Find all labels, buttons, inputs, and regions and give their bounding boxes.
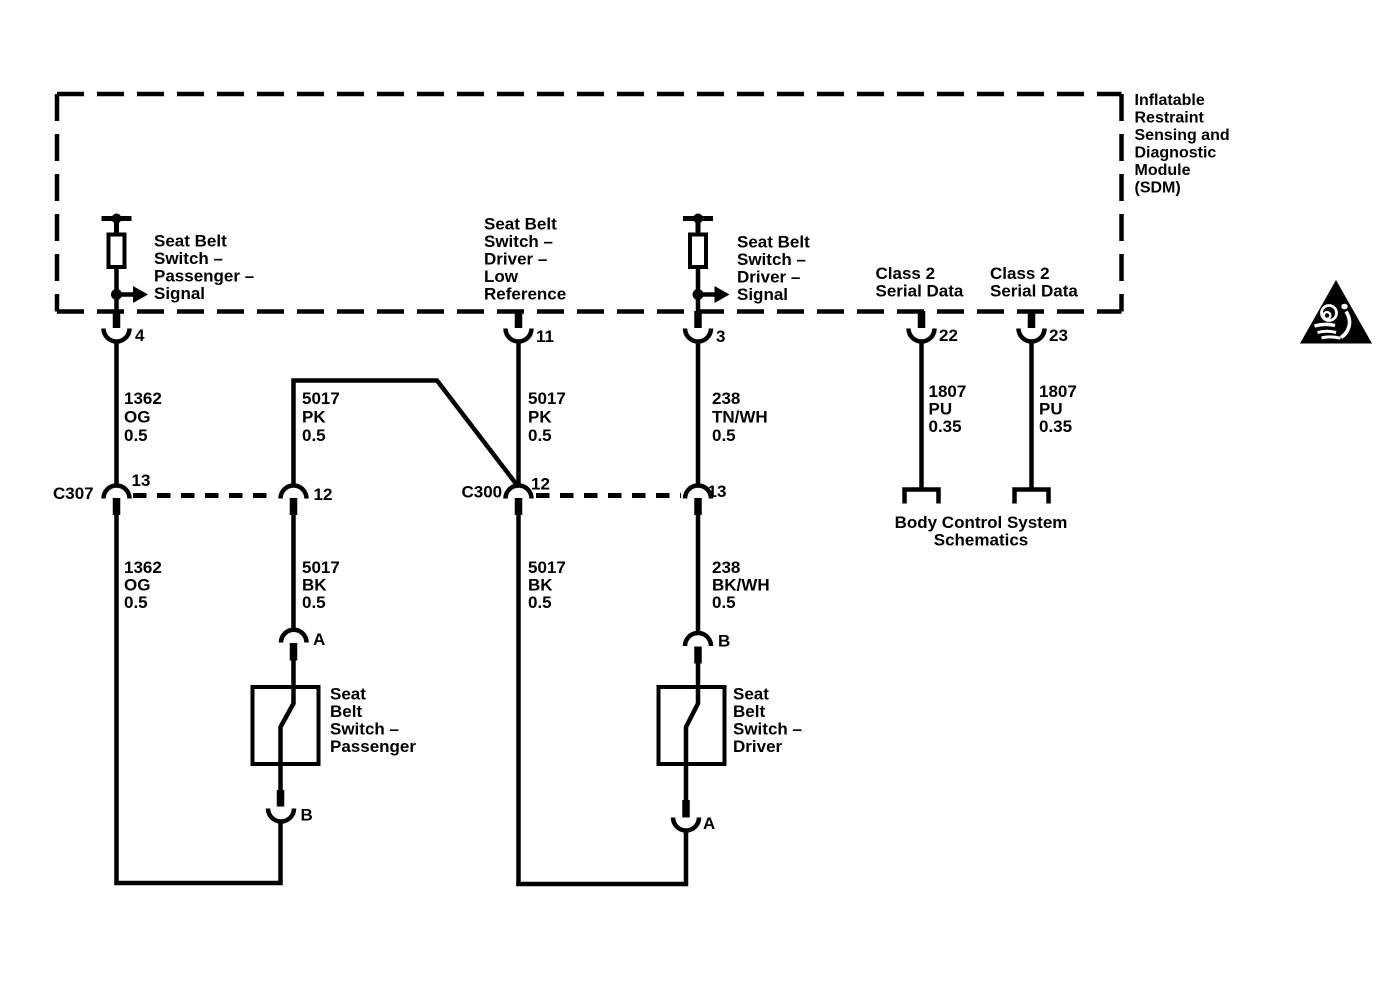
label: wire 238 BK/WH 0.5 — [712, 558, 770, 612]
svg-text:Seat: Seat — [330, 685, 366, 704]
svg-text:Seat: Seat — [733, 685, 769, 704]
label: wire 1807 PU 0.35 (pin 23) — [1039, 382, 1077, 436]
svg-text:Switch –: Switch – — [733, 720, 802, 739]
svg-text:Restraint: Restraint — [1135, 109, 1205, 126]
svg-text:1807: 1807 — [929, 382, 967, 401]
svg-text:1362: 1362 — [124, 558, 162, 577]
svg-text:Switch –: Switch – — [737, 250, 806, 269]
svg-text:Belt: Belt — [330, 702, 362, 721]
svg-text:0.5: 0.5 — [528, 426, 552, 445]
svg-text:0.35: 0.35 — [929, 417, 962, 436]
dashed connector line C300 — [536, 493, 681, 498]
label: Body Control System Schematics — [895, 513, 1068, 550]
SDM module name label — [1135, 92, 1230, 197]
svg-text:22: 22 — [939, 326, 958, 345]
resistor (SDM internal, driver) — [690, 235, 706, 268]
wire: C300-13 down to terminal B, 238 BK/WH — [696, 515, 701, 634]
wire: SDM pin 22 class 2 serial data — [919, 340, 924, 489]
svg-text:PK: PK — [528, 408, 552, 427]
svg-text:B: B — [718, 632, 730, 651]
connector C300 terminal 12 — [506, 475, 550, 516]
svg-text:Reference: Reference — [484, 285, 566, 304]
SDM connector pin 4 — [104, 311, 146, 345]
svg-text:C300: C300 — [462, 483, 503, 502]
wire: terminal A into switch box — [291, 661, 296, 689]
SDM connector pin 11 — [506, 311, 554, 346]
connector terminal B, passenger switch — [268, 790, 313, 825]
seat belt switch passenger: box — [253, 687, 319, 764]
label: wire 1362 OG 0.5 (lower) — [124, 558, 162, 612]
svg-text:Signal: Signal — [737, 285, 788, 304]
resistor (SDM internal, passenger) — [109, 235, 125, 268]
connector terminal A, driver switch — [673, 800, 715, 833]
svg-text:Class 2: Class 2 — [990, 264, 1050, 283]
connector C307 terminal 13 — [104, 471, 151, 515]
svg-text:Passenger –: Passenger – — [154, 267, 254, 286]
wire: C307-12 down to terminal A, 5017 BK — [291, 515, 296, 631]
label: wire 1807 PU 0.35 (pin 22) — [929, 382, 967, 436]
wire: C307-13 down to bottom run, 1362 OG — [114, 515, 119, 883]
SDM internal pull-up and sense arrow, driver signal — [683, 214, 730, 312]
svg-text:OG: OG — [124, 576, 150, 595]
svg-text:3: 3 — [716, 327, 725, 346]
connector C307 terminal 12 — [281, 485, 333, 515]
svg-text:13: 13 — [132, 471, 151, 490]
SIR airbag caution triangle icon — [1300, 280, 1372, 344]
svg-text:PU: PU — [1039, 400, 1063, 419]
svg-text:12: 12 — [314, 485, 333, 504]
svg-text:0.5: 0.5 — [124, 426, 148, 445]
svg-text:Body Control System: Body Control System — [895, 513, 1068, 532]
svg-text:1807: 1807 — [1039, 382, 1077, 401]
SDM connector pin 23 — [1019, 311, 1068, 345]
svg-text:23: 23 — [1049, 326, 1068, 345]
svg-text:A: A — [703, 814, 715, 833]
wire: bottom run to driver switch A — [516, 830, 686, 884]
svg-text:11: 11 — [536, 327, 554, 346]
svg-text:13: 13 — [708, 482, 727, 501]
seat belt switch driver: blade — [686, 687, 698, 800]
svg-text:Switch –: Switch – — [154, 249, 223, 268]
svg-text:0.5: 0.5 — [302, 593, 326, 612]
svg-text:0.5: 0.5 — [302, 426, 326, 445]
label: Seat Belt Switch - Passenger - Signal — [154, 232, 254, 304]
svg-text:Inflatable: Inflatable — [1135, 92, 1205, 109]
svg-text:4: 4 — [135, 326, 145, 345]
svg-text:5017: 5017 — [302, 389, 340, 408]
wire: terminal B into switch box — [696, 664, 701, 689]
svg-text:0.35: 0.35 — [1039, 417, 1072, 436]
label: wire 5017 PK 0.5 (branch) — [302, 389, 340, 445]
svg-text:Switch –: Switch – — [484, 232, 553, 251]
label: Seat Belt Switch - Driver - Low Reference — [484, 215, 566, 304]
connector terminal A, passenger switch — [281, 630, 325, 661]
svg-text:Driver –: Driver – — [737, 268, 800, 287]
svg-text:0.5: 0.5 — [124, 593, 148, 612]
wire: SDM pin 4 to C307-13, circuit 1362 OG — [114, 340, 119, 487]
label: Seat Belt Switch - Passenger — [330, 685, 416, 757]
SDM internal pull-up and sense arrow, passenger signal — [102, 214, 149, 312]
svg-text:Sensing and: Sensing and — [1135, 127, 1230, 144]
svg-text:BK: BK — [302, 576, 327, 595]
wire: SDM pin 11 to C300-12, circuit 5017 PK — [516, 340, 521, 487]
label: Seat Belt Switch - Driver - Signal — [737, 233, 810, 305]
wire: SDM pin 23 class 2 serial data — [1029, 340, 1034, 489]
svg-text:Seat Belt: Seat Belt — [154, 232, 227, 251]
svg-text:(SDM): (SDM) — [1135, 179, 1181, 196]
svg-text:Seat Belt: Seat Belt — [484, 215, 557, 234]
wire: C300-12 down to bottom run, 5017 BK — [516, 515, 521, 884]
svg-text:1362: 1362 — [124, 389, 162, 408]
svg-text:Belt: Belt — [733, 702, 765, 721]
connector C300 terminal 13 — [685, 482, 726, 515]
svg-text:Schematics: Schematics — [934, 531, 1029, 550]
label: wire 5017 BK 0.5 (driver) — [528, 558, 566, 612]
wire: SDM pin 3 to C300-13, circuit 238 TN/WH — [696, 340, 701, 487]
off-page bracket, pin 23 wire — [1015, 490, 1049, 504]
svg-text:PU: PU — [929, 400, 953, 419]
svg-text:Serial Data: Serial Data — [876, 282, 964, 301]
off-page bracket, pin 22 wire — [905, 490, 939, 504]
svg-text:Module: Module — [1135, 162, 1191, 179]
svg-text:Passenger: Passenger — [330, 737, 416, 756]
svg-text:A: A — [313, 630, 325, 649]
connector terminal B, driver switch — [685, 632, 730, 664]
svg-text:OG: OG — [124, 408, 150, 427]
svg-text:Seat Belt: Seat Belt — [737, 233, 810, 252]
svg-text:B: B — [301, 806, 313, 825]
svg-text:Switch –: Switch – — [330, 720, 399, 739]
label: Seat Belt Switch - Driver — [733, 685, 802, 757]
label: wire 5017 PK 0.5 (pin 11) — [528, 389, 566, 445]
svg-text:TN/WH: TN/WH — [712, 408, 768, 427]
svg-text:Signal: Signal — [154, 284, 205, 303]
SDM module dashed boundary box — [57, 94, 1122, 312]
svg-text:BK/WH: BK/WH — [712, 576, 770, 595]
svg-text:BK: BK — [528, 576, 553, 595]
svg-text:C307: C307 — [53, 484, 94, 503]
svg-text:5017: 5017 — [528, 558, 566, 577]
dashed connector line C307 — [133, 493, 277, 498]
svg-text:5017: 5017 — [302, 558, 340, 577]
svg-text:12: 12 — [531, 475, 550, 494]
svg-text:0.5: 0.5 — [712, 426, 736, 445]
svg-text:Class 2: Class 2 — [876, 264, 936, 283]
label: wire 1362 OG 0.5 (upper) — [124, 389, 162, 445]
svg-text:Driver: Driver — [733, 737, 783, 756]
label: wire 5017 BK 0.5 (passenger) — [302, 558, 340, 612]
svg-text:Low: Low — [484, 267, 519, 286]
label: Class 2 Serial Data (pin 22) — [876, 264, 964, 301]
svg-text:Driver –: Driver – — [484, 250, 547, 269]
wire: bottom run to passenger switch B — [114, 821, 280, 883]
SDM connector pin 3 — [685, 311, 725, 346]
wire: C307-12 up, across and diagonal down to C300-12 splice — [294, 381, 519, 488]
svg-text:Diagnostic: Diagnostic — [1135, 144, 1217, 161]
label: wire 238 TN/WH 0.5 — [712, 389, 768, 445]
svg-text:PK: PK — [302, 408, 326, 427]
label: Class 2 Serial Data (pin 23) — [990, 264, 1078, 301]
svg-text:5017: 5017 — [528, 389, 566, 408]
seat belt switch passenger: blade — [281, 687, 294, 790]
seat belt switch driver: box — [659, 687, 725, 764]
svg-text:238: 238 — [712, 558, 740, 577]
svg-text:0.5: 0.5 — [528, 593, 552, 612]
svg-text:238: 238 — [712, 389, 740, 408]
svg-text:Serial Data: Serial Data — [990, 282, 1078, 301]
svg-text:0.5: 0.5 — [712, 593, 736, 612]
SDM connector pin 22 — [909, 311, 958, 345]
